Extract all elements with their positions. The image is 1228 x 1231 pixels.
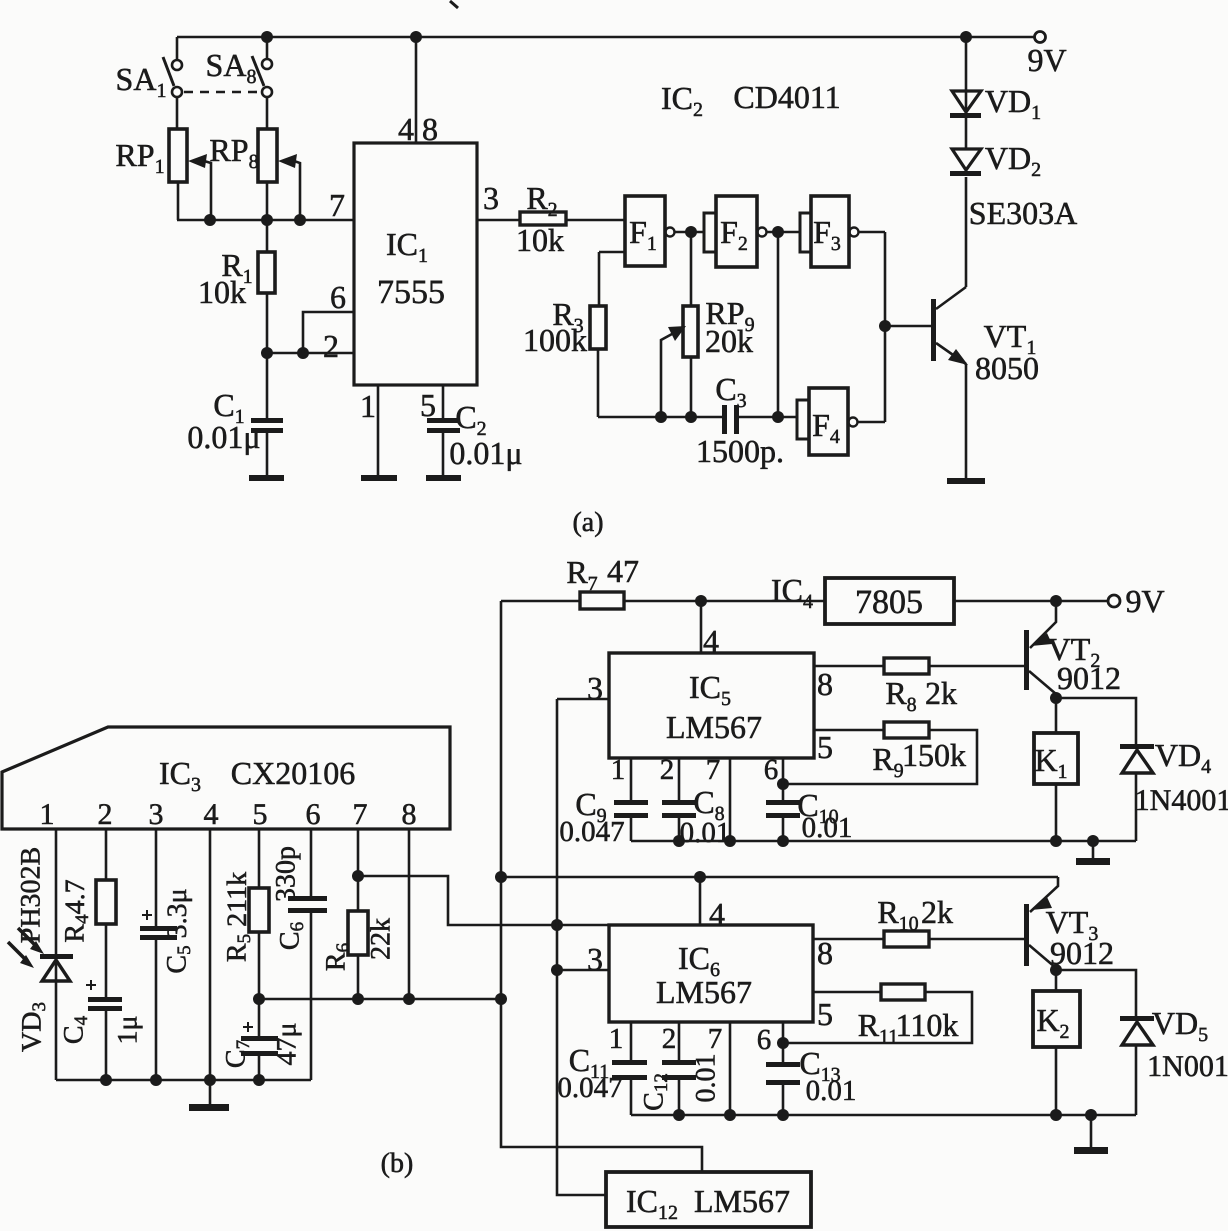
svg-text:110k: 110k <box>896 1007 959 1043</box>
resistor R3 <box>590 306 606 349</box>
svg-text:5: 5 <box>420 387 436 423</box>
wire pins 4 8 <box>415 37 418 143</box>
node K1 gnd <box>1050 835 1062 847</box>
capacitor C8 <box>678 758 681 800</box>
node rail C10 <box>777 835 789 847</box>
terminal 9V b <box>1108 595 1120 607</box>
node IC5 pin6 <box>777 778 789 790</box>
svg-text:IC12 LM567: IC12 LM567 <box>626 1183 790 1224</box>
capacitor C1 <box>266 353 269 418</box>
switch SA8 <box>252 56 272 97</box>
capacitor C11 <box>630 1022 633 1060</box>
svg-text:5: 5 <box>817 996 833 1032</box>
svg-text:8: 8 <box>422 111 438 147</box>
node pin6 tie <box>297 347 309 359</box>
wire IC6 pin7 <box>729 1022 732 1115</box>
node R6 bottom <box>352 993 364 1005</box>
svg-text:2: 2 <box>323 328 339 364</box>
wire gnd rail IC5 <box>631 840 1136 843</box>
svg-text:R5 211k: R5 211k <box>222 872 255 962</box>
resistor R8 <box>884 658 929 674</box>
wire IC5 pin3 <box>557 698 609 701</box>
light arrow 1 <box>18 928 37 947</box>
svg-text:8050: 8050 <box>975 350 1039 386</box>
capacitor C10 <box>782 758 785 800</box>
svg-text:C5 3.3μ: C5 3.3μ <box>162 888 195 973</box>
svg-text:6: 6 <box>757 1024 772 1056</box>
IC6 LM567 box <box>609 925 813 1022</box>
resistor R2 <box>520 212 566 225</box>
svg-text:6: 6 <box>306 798 321 831</box>
wire IC5 pin8 R8 <box>814 665 884 668</box>
wire R3 to F1 input <box>599 252 625 306</box>
svg-text:3: 3 <box>483 180 499 216</box>
capacitor C7 <box>241 1036 278 1041</box>
svg-text:100k: 100k <box>523 322 587 358</box>
photodiode VD3 <box>40 954 73 959</box>
svg-text:9012: 9012 <box>1050 935 1114 971</box>
wire pin2 <box>267 352 354 355</box>
wire SA8 drop <box>266 37 269 59</box>
node pin8 <box>403 993 415 1005</box>
svg-text:7805: 7805 <box>855 584 923 621</box>
svg-text:5: 5 <box>817 729 833 765</box>
svg-text:R44.7: R44.7 <box>60 879 93 942</box>
wire IC6 pin3 <box>557 969 609 972</box>
svg-text:7: 7 <box>353 798 368 831</box>
resistor R4 <box>105 829 108 880</box>
wire bus to pin7 <box>177 219 354 222</box>
svg-text:3: 3 <box>587 941 603 977</box>
ground pin1 <box>361 475 397 481</box>
resistor R6 <box>357 829 360 911</box>
node R5 C7 <box>253 993 265 1005</box>
svg-text:CD4011: CD4011 <box>733 79 840 115</box>
capacitor C6 <box>310 829 313 896</box>
svg-text:2: 2 <box>662 1023 677 1055</box>
node R7 out <box>695 595 707 607</box>
node rail RP9 wiper <box>655 411 667 423</box>
node gnd stem b <box>1087 835 1099 847</box>
node rail C5 <box>150 1074 162 1086</box>
svg-text:PH302B: PH302B <box>16 847 47 943</box>
node vcc drop <box>495 993 507 1005</box>
resistor R5 <box>258 829 261 888</box>
svg-text:5: 5 <box>253 798 268 831</box>
node rail2 C13 <box>777 1109 789 1121</box>
node rail C4 <box>100 1074 112 1086</box>
ground K1 <box>1092 841 1095 858</box>
svg-text:20k: 20k <box>705 323 753 359</box>
wiper RP8 <box>294 161 300 220</box>
svg-text:0.01: 0.01 <box>806 1075 857 1107</box>
svg-text:330p: 330p <box>271 846 302 902</box>
ground VT1 <box>947 478 985 484</box>
svg-text:6: 6 <box>764 754 779 786</box>
wire gnd rail b1 <box>56 1079 311 1082</box>
wire IC5 pin5 R9 <box>814 729 884 732</box>
svg-text:9V: 9V <box>1125 583 1164 619</box>
diode VD5 <box>1056 970 1136 1016</box>
relay K2 <box>1055 970 1058 991</box>
wire SA1 to RP1 <box>176 97 179 129</box>
svg-text:1μ: 1μ <box>113 1015 144 1044</box>
svg-text:LM567: LM567 <box>666 709 762 745</box>
wire dashed gang link <box>184 91 260 94</box>
relay K1 <box>1055 698 1058 733</box>
svg-text:4: 4 <box>703 623 719 659</box>
svg-text:1N4001: 1N4001 <box>1135 784 1228 817</box>
wire gnd rail IC6 <box>631 1114 1136 1117</box>
IC5 LM567 box <box>609 653 814 758</box>
svg-text:8: 8 <box>402 798 417 831</box>
svg-text:(a): (a) <box>572 507 603 538</box>
svg-text:2k: 2k <box>925 675 957 711</box>
node pin7 out <box>352 870 364 882</box>
svg-text:2: 2 <box>660 754 675 786</box>
terminal 9V <box>1035 32 1046 43</box>
svg-text:0.01: 0.01 <box>802 812 853 844</box>
wire 9V feed horizontal <box>501 876 1058 879</box>
svg-text:7: 7 <box>708 1023 723 1055</box>
regulator IC4 7805 box <box>825 578 954 624</box>
node K2 gnd <box>1050 1109 1062 1121</box>
wire F2 out to F3 <box>767 231 800 234</box>
node top-rail junction VD1 <box>960 31 972 43</box>
gate F1 <box>625 196 665 266</box>
wire pin7 jog to LM567 inputs <box>358 876 609 925</box>
wire F3 out <box>859 232 885 422</box>
svg-text:4: 4 <box>204 798 219 831</box>
svg-text:0.047: 0.047 <box>557 1072 622 1104</box>
transistor Q1 VT1 <box>931 299 936 361</box>
node rail pin7 <box>724 835 736 847</box>
wire pin1 <box>55 829 58 954</box>
IC12 LM567 box <box>606 1172 811 1227</box>
node top-rail junction IC1 <box>410 31 422 43</box>
node wiper RP8 <box>294 214 306 226</box>
gate F2 <box>704 213 716 252</box>
wire IC6 pin5 R11 <box>813 991 881 994</box>
svg-text:1: 1 <box>360 388 376 424</box>
diode VD2 <box>952 149 981 170</box>
svg-text:1: 1 <box>609 1023 624 1055</box>
node gnd stem b2 <box>1085 1109 1097 1121</box>
wire IC6 pin4 <box>699 877 702 925</box>
wire F1 out to F2 <box>675 231 704 234</box>
capacitor C2 <box>442 385 445 418</box>
svg-text:6: 6 <box>330 279 346 315</box>
svg-text:3: 3 <box>587 670 603 706</box>
svg-text:3: 3 <box>149 798 164 831</box>
svg-text:LM567: LM567 <box>656 974 752 1010</box>
node signal tie <box>551 919 563 931</box>
capacitor C4 <box>88 997 122 1002</box>
ground C1 <box>249 475 284 481</box>
wire pin4 <box>209 829 212 1080</box>
capacitor C9 <box>630 758 633 800</box>
node IC6 pin6 <box>777 1037 789 1049</box>
wire SA1 drop <box>176 37 179 60</box>
svg-text:47μ: 47μ <box>272 1022 303 1065</box>
node VT1 base tie <box>879 320 891 332</box>
wire top 9V rail <box>177 36 1035 39</box>
wire RP8 bottom <box>266 182 269 220</box>
IC3 CX20106 box <box>2 727 450 829</box>
svg-text:0.01μ: 0.01μ <box>187 419 260 455</box>
light arrow 2 <box>8 942 27 961</box>
resistor R10 <box>884 931 929 947</box>
node wiper RP1 <box>204 214 216 226</box>
svg-text:4: 4 <box>398 111 414 147</box>
svg-text:CX20106: CX20106 <box>231 755 355 791</box>
svg-text:10k: 10k <box>516 222 564 258</box>
transistor Q2 VT2 <box>1030 601 1056 648</box>
wire osc bottom rail <box>598 416 797 419</box>
potentiometer RP8 <box>258 129 277 182</box>
wire 9V vertical trunk <box>501 601 702 1172</box>
wire SA8 to RP8 <box>266 97 269 129</box>
svg-text:10k: 10k <box>198 274 246 310</box>
svg-text:0.01: 0.01 <box>680 817 731 849</box>
svg-text:2k: 2k <box>921 894 953 930</box>
wire vcc rail b <box>259 998 501 1001</box>
switch SA1 <box>163 57 182 97</box>
node rail C8 <box>673 835 685 847</box>
capacitor C12 <box>678 1022 681 1060</box>
node rail F2out <box>772 411 784 423</box>
wire IC5 pin7 <box>729 758 732 841</box>
node R1 bottom <box>261 347 273 359</box>
node VT2 emitter feed <box>1050 595 1062 607</box>
diode VD1 <box>965 37 968 113</box>
wiper RP1 <box>204 161 211 220</box>
svg-text:22k: 22k <box>366 918 397 960</box>
node rail2 C12 <box>673 1109 685 1121</box>
node rail pin4 <box>204 1074 216 1086</box>
svg-text:7: 7 <box>329 187 345 223</box>
node VT2 collector <box>1050 692 1062 704</box>
resistor R7 <box>501 600 580 603</box>
node F2 out <box>772 226 784 238</box>
resistor R1 <box>266 220 269 252</box>
svg-text:1500p.: 1500p. <box>696 433 784 469</box>
op-amp U1 box IC1 7555 <box>354 143 477 385</box>
gate F4 <box>797 400 809 439</box>
capacitor C3 <box>722 405 727 434</box>
wire RP1 bottom <box>177 182 180 220</box>
svg-text:1: 1 <box>40 798 55 831</box>
wire pin6 <box>303 312 354 353</box>
svg-text:8: 8 <box>817 666 833 702</box>
wire IC5 pin4 <box>700 601 703 653</box>
node RP8 bottom <box>261 214 273 226</box>
svg-text:150k: 150k <box>902 737 966 773</box>
node VT3 collector <box>1050 964 1062 976</box>
svg-text:7555: 7555 <box>377 274 445 311</box>
svg-text:1N001: 1N001 <box>1147 1050 1228 1083</box>
svg-text:1: 1 <box>611 754 626 786</box>
svg-text:0.01: 0.01 <box>691 1054 722 1103</box>
ground C2 <box>426 475 461 481</box>
svg-text:(b): (b) <box>381 1148 414 1179</box>
wire pin8 <box>408 829 411 999</box>
node rail2 pin7 <box>724 1109 736 1121</box>
svg-text:2: 2 <box>98 798 113 831</box>
svg-text:SE303A: SE303A <box>969 195 1077 231</box>
svg-text:9012: 9012 <box>1057 660 1121 696</box>
capacitor C13 <box>782 1022 785 1062</box>
svg-text:4: 4 <box>709 896 725 932</box>
node F1 out <box>685 226 697 238</box>
svg-text:47: 47 <box>607 553 639 589</box>
node IC6 pin3 tie <box>551 964 563 976</box>
stray mark top <box>450 1 458 8</box>
ground K2 <box>1090 1115 1093 1147</box>
potentiometer RP1 <box>169 129 187 182</box>
svg-text:8: 8 <box>817 935 833 971</box>
svg-text:0.01μ: 0.01μ <box>449 435 522 471</box>
gate F3 <box>800 213 811 252</box>
node rail C7 <box>253 1074 265 1086</box>
wiper RP9 <box>661 334 672 417</box>
node IC6 pin4 feed <box>694 871 706 883</box>
node rail RP9 bottom <box>685 411 697 423</box>
wire 7805 out <box>954 600 1108 603</box>
wire base VT1 <box>885 325 931 328</box>
node 9V feed left <box>495 871 507 883</box>
node top-rail junction SA8 <box>261 31 273 43</box>
capacitor C5 <box>155 829 158 926</box>
svg-text:7: 7 <box>706 754 721 786</box>
wire IC6 pin8 R10 <box>813 938 884 941</box>
ground IC3 <box>209 1080 212 1104</box>
diode VD4 <box>1056 698 1136 744</box>
svg-text:0.047: 0.047 <box>559 816 624 848</box>
transistor Q3 VT3 <box>1030 877 1058 912</box>
resistor R9 <box>884 722 929 738</box>
wire F4 out <box>858 421 885 424</box>
wire pin1 ground <box>377 385 380 475</box>
wire signal vertical trunk <box>557 699 606 1195</box>
wire pin3 to R2 <box>477 219 520 222</box>
wire F2 out down <box>777 232 780 417</box>
resistor R11 <box>881 984 925 1000</box>
svg-text:9V: 9V <box>1027 42 1066 78</box>
potentiometer RP9 <box>690 232 693 306</box>
